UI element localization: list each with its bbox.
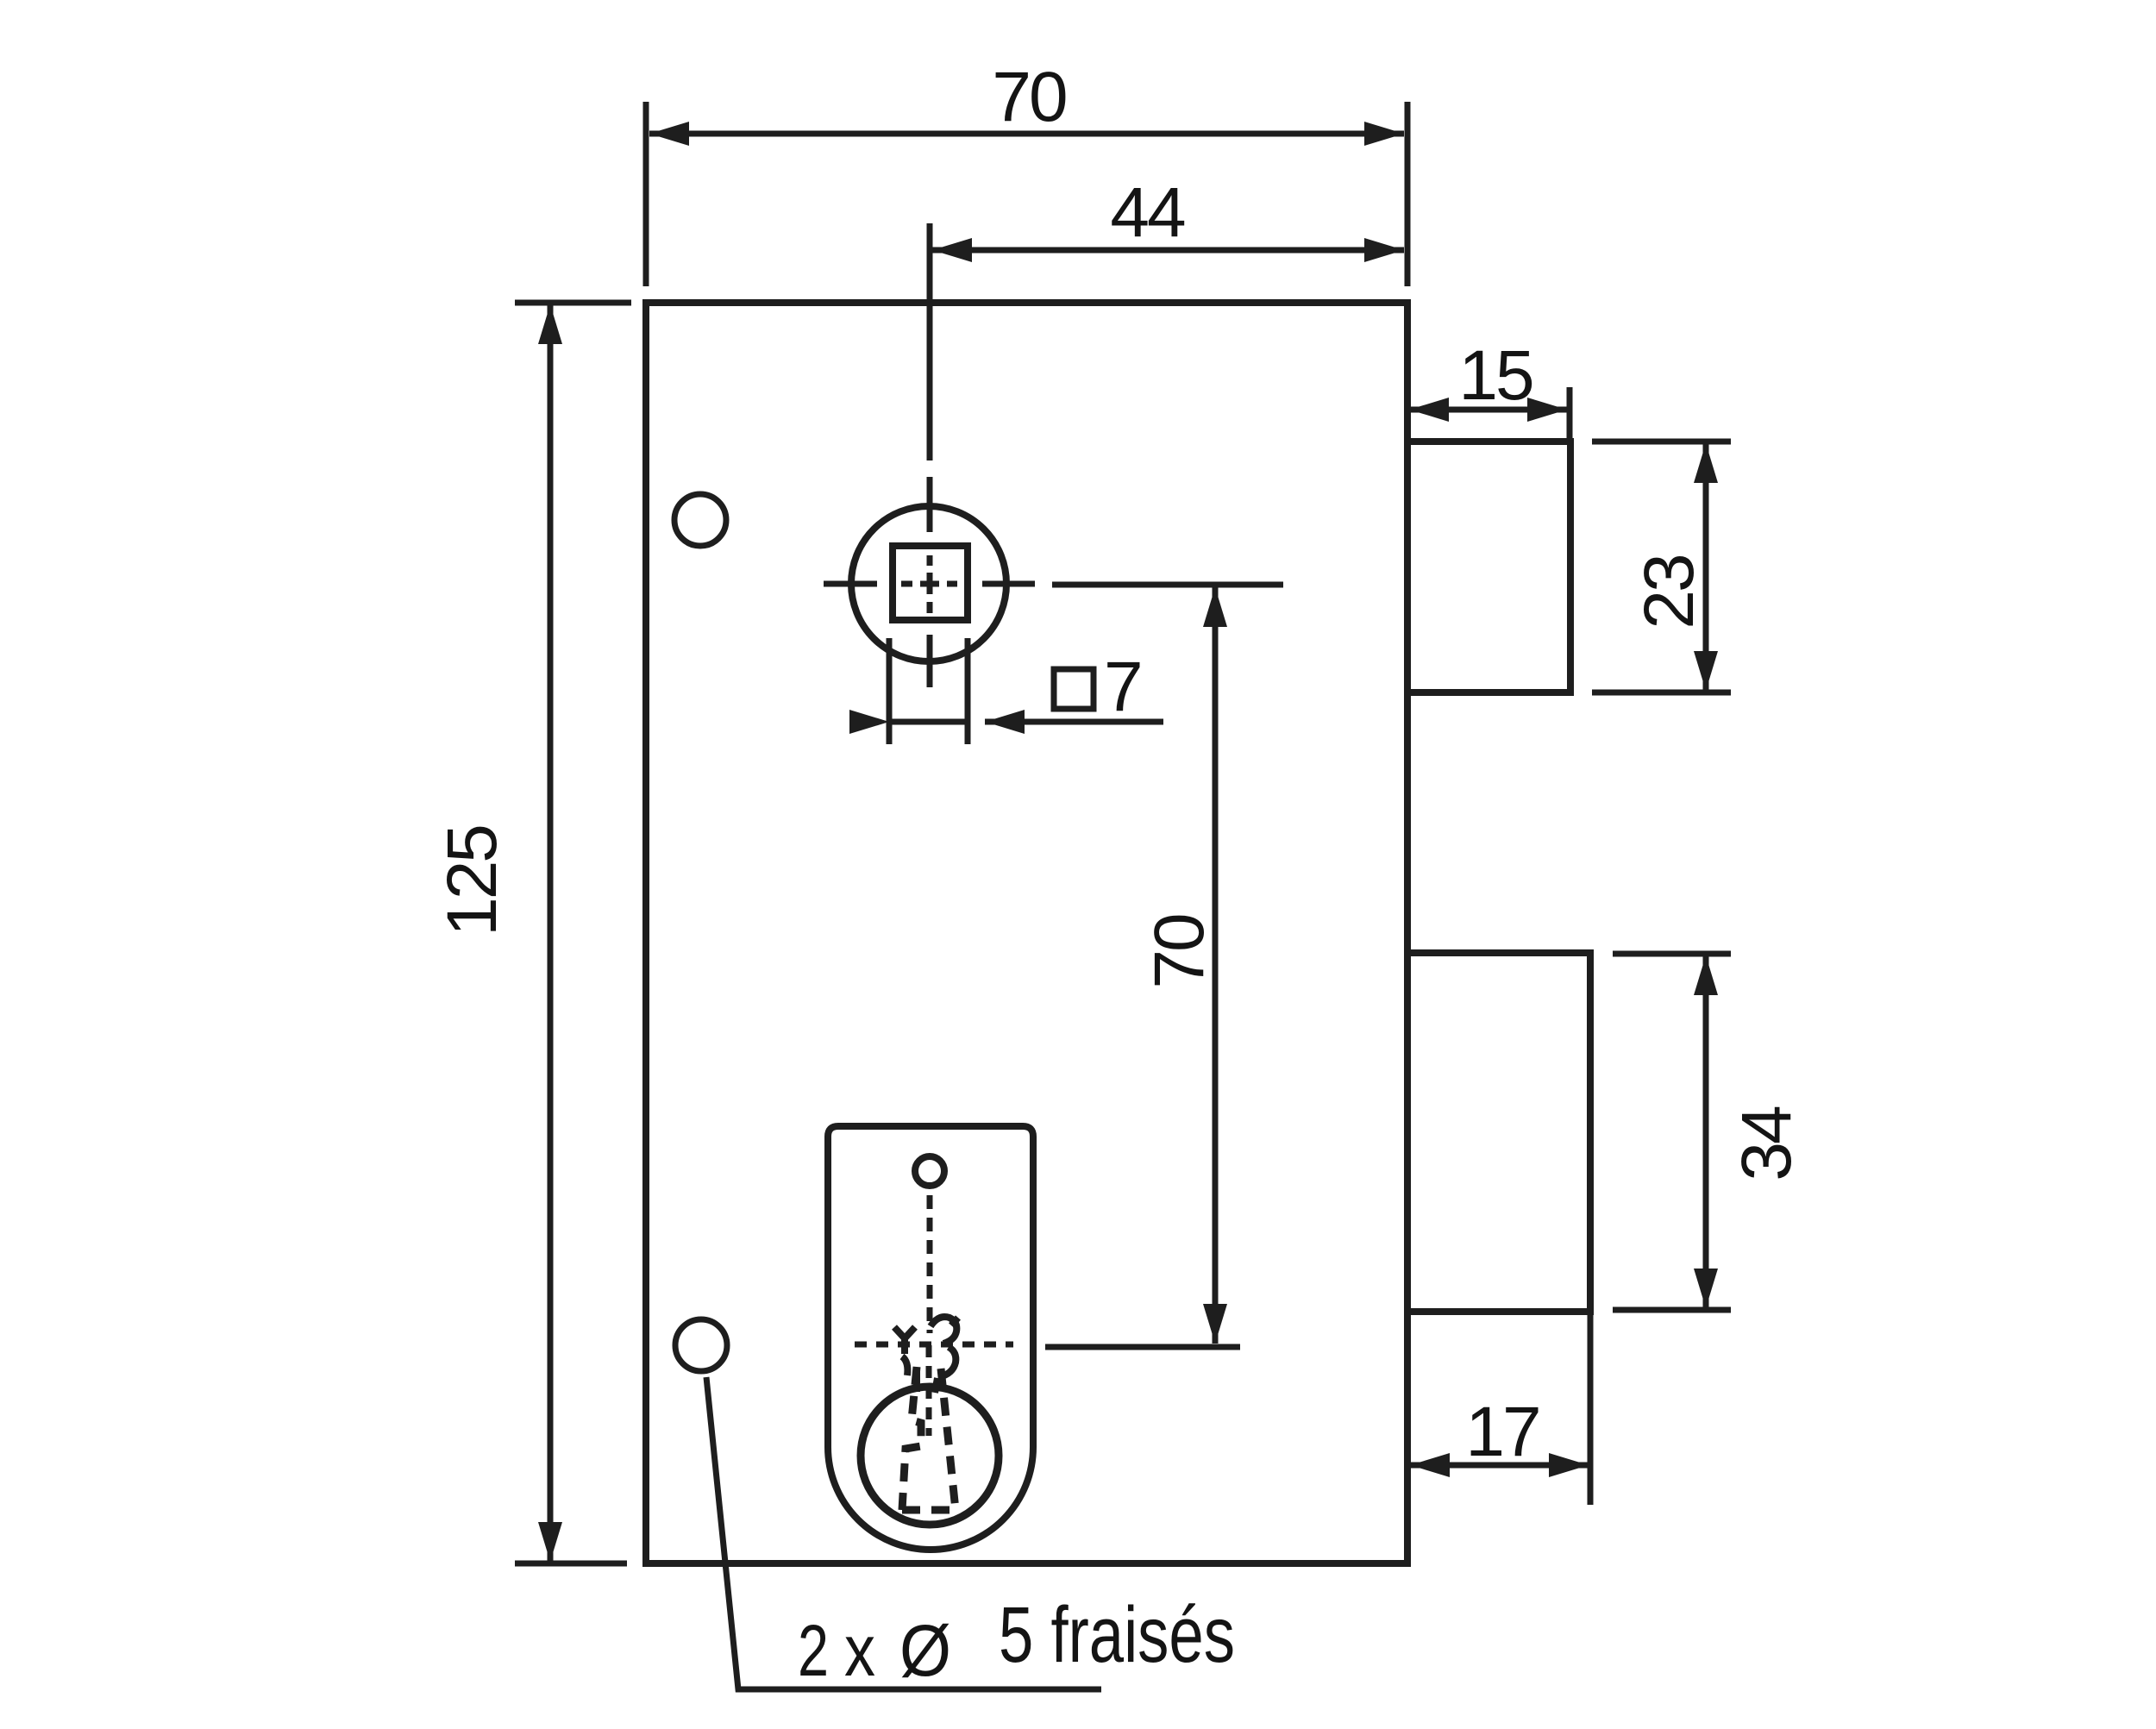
svg-text:15: 15: [1458, 336, 1532, 415]
svg-text:34: 34: [1727, 1106, 1806, 1181]
svg-text:5 fraisés: 5 fraisés: [999, 1591, 1235, 1679]
svg-text:23: 23: [1630, 555, 1708, 629]
svg-text:7: 7: [1104, 648, 1144, 726]
svg-text:2: 2: [798, 1610, 829, 1691]
svg-text:70: 70: [992, 58, 1066, 136]
svg-text:125: 125: [433, 826, 511, 937]
svg-text:x: x: [844, 1610, 875, 1691]
svg-text:Ø: Ø: [899, 1610, 951, 1691]
svg-text:44: 44: [1110, 173, 1185, 252]
svg-text:70: 70: [1140, 915, 1219, 989]
svg-text:17: 17: [1465, 1393, 1539, 1471]
